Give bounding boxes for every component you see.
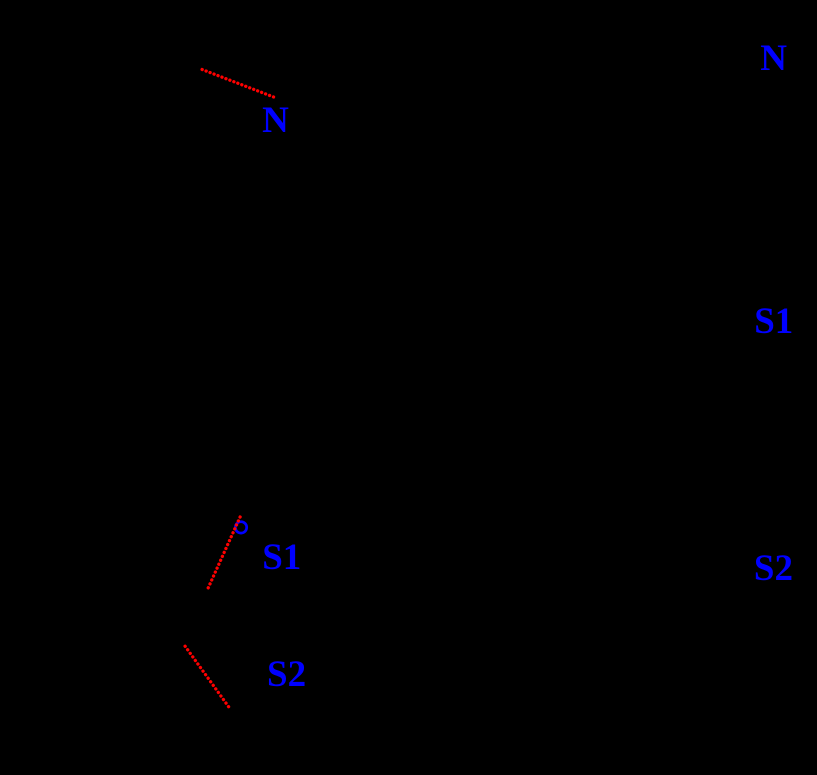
svg-text:S1: S1 bbox=[754, 301, 793, 342]
svg-text:S1: S1 bbox=[262, 537, 301, 578]
blue circle marker (left molecule) bbox=[235, 522, 246, 533]
red dotted NOE line A (top-left) bbox=[202, 70, 274, 98]
svg-text:S2: S2 bbox=[267, 654, 306, 695]
svg-text:N: N bbox=[760, 38, 787, 79]
svg-text:N: N bbox=[262, 100, 289, 141]
svg-text:S2: S2 bbox=[754, 548, 793, 589]
red dotted NOE line C (left, lower) bbox=[185, 646, 229, 707]
red dotted NOE line B (left, upper) bbox=[208, 517, 240, 588]
